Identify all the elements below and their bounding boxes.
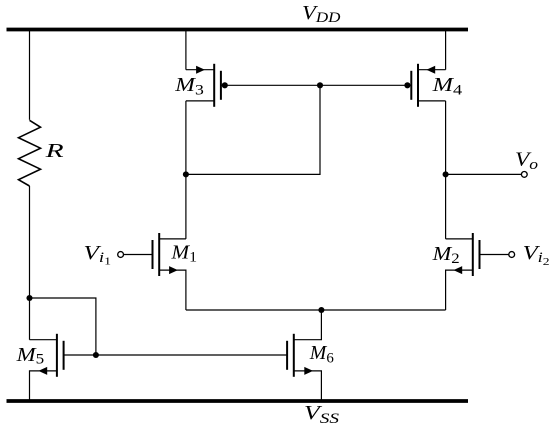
svg-text:R: R [44,140,63,162]
